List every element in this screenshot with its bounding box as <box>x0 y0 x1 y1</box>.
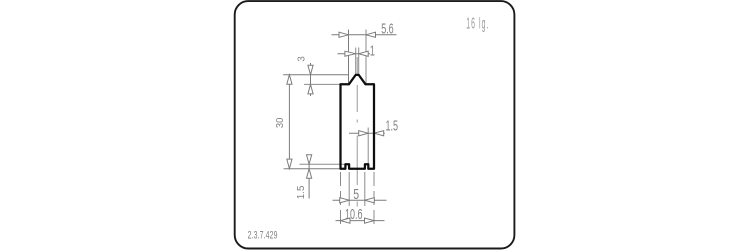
wire: extension line at notch top level <box>300 163 346 165</box>
wire: extension line 5.6 left <box>348 30 350 85</box>
arrow 3 top <box>308 65 313 75</box>
wire: extension line 1 left (apex) <box>355 48 357 75</box>
wire: extension line left notch inner (below) <box>348 172 350 206</box>
arrow 10.6 right <box>365 218 375 223</box>
arrow 5 right <box>365 198 375 203</box>
arrow 1.5L top <box>307 155 312 165</box>
arrow 1.5M right <box>374 131 384 136</box>
svg-text:1.5: 1.5 <box>296 185 307 199</box>
arrow 5 left <box>340 198 350 203</box>
wire: dimension line 1 <box>338 53 371 55</box>
arrow 30 bottom <box>287 159 292 169</box>
wire: extension line 1 right (apex) <box>358 48 360 75</box>
arrow 5.6 right <box>366 32 376 37</box>
wire: dimension line 5.6 <box>332 34 397 36</box>
svg-text:3: 3 <box>296 56 307 62</box>
arrow 1.5M left <box>359 131 369 136</box>
wire: extension line at bottom edge level <box>284 168 341 170</box>
wire: dimension line 1.5 middle <box>349 132 385 134</box>
wire: extension line 5.6 right <box>365 30 367 85</box>
wire: stem of dimension 3 <box>310 63 312 96</box>
svg-text:5.6: 5.6 <box>381 20 394 37</box>
svg-text:16 lg.: 16 lg. <box>466 15 489 33</box>
arrow 3 bottom <box>308 84 313 94</box>
svg-text:1: 1 <box>370 42 375 59</box>
wire: extension line at shoulder level <box>304 83 340 85</box>
wire: dimension line 30 <box>288 75 290 169</box>
arrow 10.6 left <box>341 218 351 223</box>
arrow 1 right <box>359 51 369 56</box>
wire: extension line 1.5 middle (notch outer edge) <box>367 128 369 164</box>
wire: extension line at peak top level <box>283 74 349 76</box>
wire: extension line right body edge (below) <box>373 172 375 227</box>
arrow 30 top <box>287 75 292 85</box>
wire: extension line right notch inner (below) <box>364 172 366 206</box>
centerline (vertical chain line of profile) <box>356 57 358 207</box>
svg-text:30: 30 <box>275 117 286 128</box>
wire: dimension line 10.6 <box>336 220 385 222</box>
profile outline of punch body <box>341 75 375 169</box>
svg-text:2.3.7.429: 2.3.7.429 <box>248 229 278 241</box>
arrow 1.5L bottom <box>307 169 312 179</box>
arrow 1 left <box>345 51 356 56</box>
svg-text:1.5: 1.5 <box>386 117 399 134</box>
wire: extension line left body edge (below) <box>340 172 342 227</box>
wire: dimension line 5 <box>333 199 387 201</box>
svg-text:5: 5 <box>353 187 359 203</box>
card border <box>235 1 515 248</box>
wire: stem of dimension 1.5 left <box>308 155 310 199</box>
arrow 5.6 left <box>339 32 349 37</box>
svg-text:10.6: 10.6 <box>345 206 363 223</box>
